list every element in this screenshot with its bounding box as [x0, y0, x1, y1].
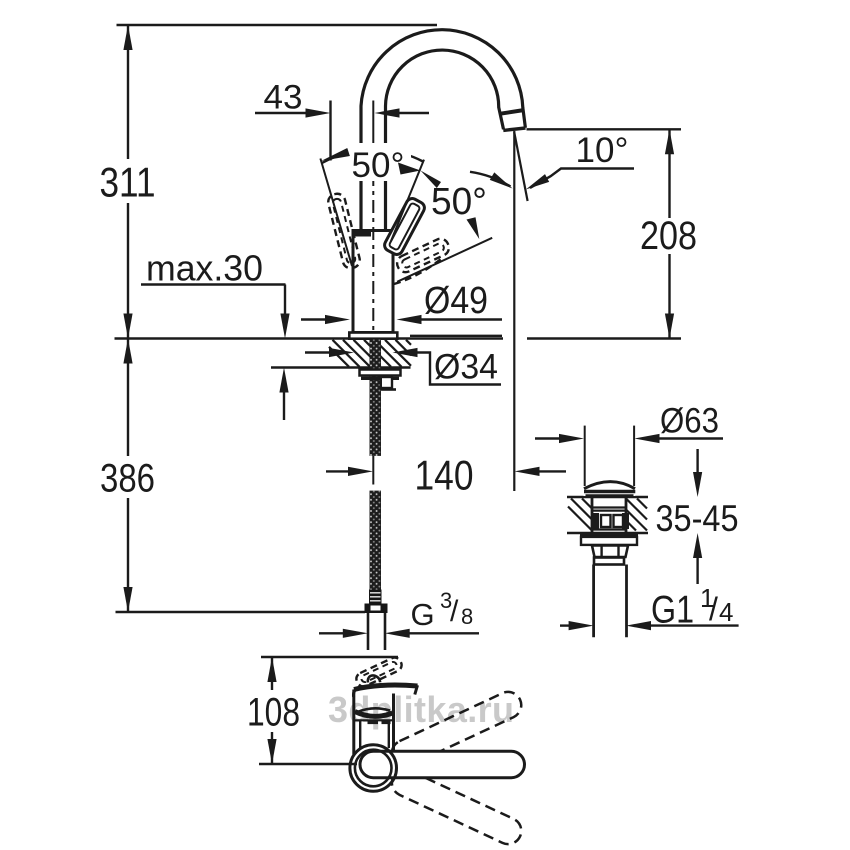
svg-text:G: G	[411, 597, 435, 632]
svg-text:208: 208	[640, 214, 697, 258]
svg-text:311: 311	[100, 159, 156, 206]
svg-text:/: /	[709, 591, 718, 627]
svg-text:4: 4	[719, 597, 733, 627]
svg-text:8: 8	[461, 604, 473, 629]
svg-text:max.30: max.30	[146, 248, 263, 289]
svg-text:G1: G1	[651, 589, 694, 632]
svg-text:35-45: 35-45	[656, 498, 739, 539]
svg-text:/: /	[450, 595, 459, 628]
svg-text:Ø34: Ø34	[434, 348, 498, 387]
svg-text:140: 140	[415, 452, 474, 499]
svg-text:386: 386	[100, 457, 155, 501]
svg-text:Ø63: Ø63	[660, 402, 719, 441]
svg-text:50°: 50°	[352, 146, 405, 185]
svg-text:50°: 50°	[431, 181, 487, 223]
svg-text:Ø49: Ø49	[424, 280, 488, 322]
svg-text:108: 108	[247, 691, 300, 735]
svg-text:10°: 10°	[576, 131, 629, 170]
svg-text:43: 43	[264, 79, 303, 117]
